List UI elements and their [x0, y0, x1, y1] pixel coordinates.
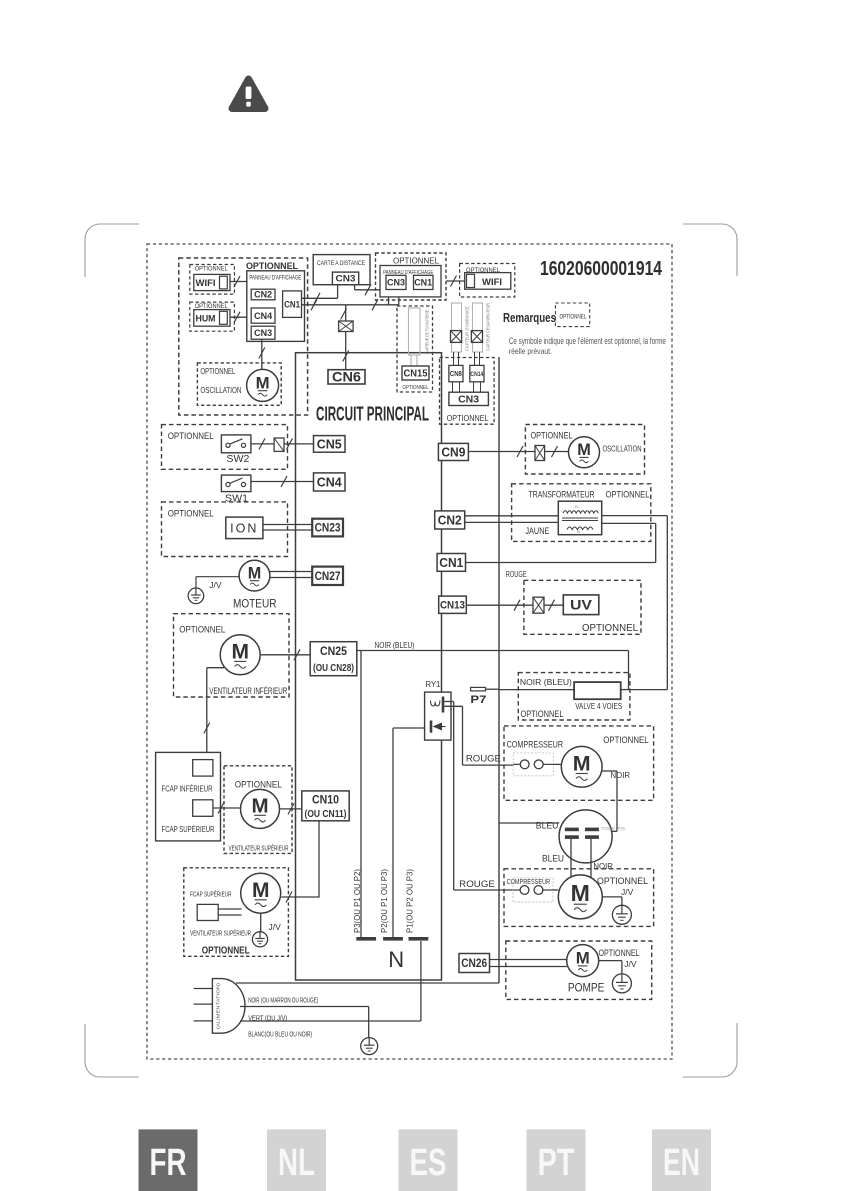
svg-text:OPTIONNEL: OPTIONNEL	[603, 735, 649, 746]
svg-text:OPTIONNEL: OPTIONNEL	[606, 489, 650, 499]
svg-text:ES: ES	[410, 1142, 447, 1184]
svg-text:CN3: CN3	[254, 328, 272, 339]
svg-text:WIFI: WIFI	[196, 278, 216, 289]
svg-text:CN15: CN15	[404, 369, 428, 380]
svg-text:OPTIONNEL: OPTIONNEL	[582, 623, 638, 634]
svg-text:M: M	[251, 795, 268, 818]
svg-text:FCAP SUPÉRIEUR: FCAP SUPÉRIEUR	[190, 890, 232, 899]
svg-text:M: M	[252, 879, 270, 902]
svg-text:OSCILLATION: OSCILLATION	[200, 386, 241, 395]
svg-text:CN2: CN2	[254, 290, 272, 300]
svg-text:VALVE 4 VOIES: VALVE 4 VOIES	[575, 702, 622, 711]
svg-text:OPTIONNEL: OPTIONNEL	[403, 385, 429, 391]
svg-text:CN10: CN10	[312, 795, 339, 807]
svg-text:OPTIONNEL: OPTIONNEL	[179, 624, 225, 634]
svg-text:J/V: J/V	[209, 580, 222, 590]
svg-text:J/V: J/V	[624, 959, 637, 969]
svg-text:M: M	[231, 641, 249, 664]
svg-text:OPTIONNEL: OPTIONNEL	[202, 945, 250, 956]
svg-text:(ALIMENTATION): (ALIMENTATION)	[216, 982, 221, 1029]
svg-text:CN2: CN2	[438, 513, 462, 527]
svg-text:J/V: J/V	[269, 922, 282, 932]
svg-text:ION: ION	[230, 522, 258, 536]
svg-text:NOIR (BLEU): NOIR (BLEU)	[375, 640, 415, 650]
svg-text:CIRCUIT PRINCIPAL: CIRCUIT PRINCIPAL	[316, 404, 429, 426]
svg-text:PT: PT	[538, 1142, 575, 1184]
svg-text:P1(OU P2 OU P3): P1(OU P2 OU P3)	[406, 869, 415, 933]
svg-text:O.: O.	[577, 529, 581, 534]
svg-text:CAPTEUR DE TUYAUTERIE: CAPTEUR DE TUYAUTERIE	[425, 310, 430, 354]
svg-text:réelle prévaut.: réelle prévaut.	[509, 346, 552, 356]
svg-text:NOIR (OU MARRON OU ROUGE): NOIR (OU MARRON OU ROUGE)	[248, 998, 318, 1005]
svg-text:M: M	[256, 373, 270, 392]
svg-text:CN13: CN13	[440, 600, 465, 612]
svg-text:CN3: CN3	[336, 274, 356, 285]
svg-text:VENTILATEUR SUPÉRIEUR: VENTILATEUR SUPÉRIEUR	[190, 929, 251, 938]
svg-text:O.: O.	[575, 504, 579, 509]
svg-text:COMPRESSEUR: COMPRESSEUR	[507, 740, 564, 751]
svg-text:VERT (OU J/V): VERT (OU J/V)	[248, 1015, 287, 1022]
svg-text:VENTILATEUR SUPÉRIEUR: VENTILATEUR SUPÉRIEUR	[229, 844, 289, 853]
svg-text:OPTIONNEL: OPTIONNEL	[246, 261, 298, 271]
svg-text:BLEU: BLEU	[536, 821, 559, 831]
svg-text:VENTILATEUR INFÉRIEUR: VENTILATEUR INFÉRIEUR	[209, 686, 287, 696]
svg-text:OPTIONNEL: OPTIONNEL	[393, 255, 439, 265]
svg-text:PANNEAU D'AFFICHAGE: PANNEAU D'AFFICHAGE	[249, 276, 301, 282]
svg-text:CN8: CN8	[450, 371, 462, 378]
svg-text:ROUGE: ROUGE	[506, 569, 527, 579]
svg-text:M: M	[573, 752, 591, 776]
svg-text:SW1: SW1	[225, 493, 248, 505]
svg-text:OPTIONNEL: OPTIONNEL	[168, 508, 214, 518]
svg-text:BLEU: BLEU	[542, 853, 564, 863]
svg-text:M: M	[571, 880, 590, 906]
svg-text:EN: EN	[663, 1142, 700, 1184]
svg-text:JAUNE: JAUNE	[525, 526, 549, 537]
svg-text:OPTIONNEL: OPTIONNEL	[195, 266, 229, 272]
svg-text:CN6: CN6	[332, 370, 362, 385]
svg-text:OSCILLATION: OSCILLATION	[603, 444, 642, 454]
svg-text:FCAP INFÉRIEUR: FCAP INFÉRIEUR	[162, 784, 213, 794]
svg-text:OPTIONNEL: OPTIONNEL	[599, 948, 640, 958]
svg-text:16020600001914: 16020600001914	[540, 258, 663, 280]
svg-text:ROUGE: ROUGE	[459, 879, 495, 890]
svg-text:CN26: CN26	[461, 958, 487, 970]
svg-text:CN27: CN27	[315, 571, 341, 583]
svg-text:HUM: HUM	[196, 313, 216, 324]
svg-text:CN4: CN4	[254, 311, 273, 322]
svg-text:NOIR (BLEU): NOIR (BLEU)	[520, 677, 572, 687]
svg-text:UV: UV	[570, 597, 593, 613]
svg-text:J/V: J/V	[621, 887, 634, 897]
svg-text:(OU CN11): (OU CN11)	[305, 809, 347, 820]
svg-text:CN1: CN1	[284, 299, 300, 309]
svg-text:SW2: SW2	[226, 453, 249, 465]
svg-text:MOTEUR: MOTEUR	[233, 598, 277, 610]
svg-text:CN1: CN1	[439, 556, 463, 570]
svg-text:CAPTEUR D'EVAPORATEUR: CAPTEUR D'EVAPORATEUR	[486, 302, 491, 351]
svg-text:OPTIONNEL: OPTIONNEL	[521, 709, 564, 719]
svg-text:OPTIONNEL: OPTIONNEL	[200, 367, 235, 376]
svg-text:POMPE: POMPE	[568, 982, 605, 994]
svg-text:N: N	[388, 947, 404, 972]
svg-text:CP(2)(OU CP(3)): CP(2)(OU CP(3))	[601, 826, 626, 831]
svg-text:FR: FR	[150, 1142, 187, 1184]
svg-text:CN14: CN14	[470, 371, 483, 378]
svg-text:CN1: CN1	[414, 278, 433, 289]
svg-text:OPTIONNEL: OPTIONNEL	[235, 779, 282, 789]
svg-text:NL: NL	[278, 1142, 315, 1184]
svg-text:TRANSFORMATEUR: TRANSFORMATEUR	[529, 489, 595, 499]
svg-text:CN3: CN3	[458, 394, 479, 406]
svg-text:CAPTEUR D'AMBIANCE: CAPTEUR D'AMBIANCE	[465, 306, 470, 351]
svg-text:OPTIONNEL: OPTIONNEL	[168, 431, 214, 441]
svg-text:M: M	[577, 441, 591, 459]
svg-text:M: M	[576, 949, 590, 968]
svg-text:CN25: CN25	[320, 646, 348, 658]
svg-text:P2(OU P1 OU P3): P2(OU P1 OU P3)	[380, 869, 389, 933]
svg-text:P7: P7	[470, 694, 486, 706]
svg-text:OPTIONNEL: OPTIONNEL	[560, 314, 588, 320]
svg-text:(OU CN28): (OU CN28)	[313, 663, 354, 674]
svg-text:CN3: CN3	[387, 278, 405, 289]
svg-text:CN4: CN4	[317, 475, 342, 489]
svg-text:M: M	[248, 565, 261, 583]
svg-text:WIFI: WIFI	[482, 277, 502, 288]
svg-text:OPTIONNEL: OPTIONNEL	[447, 414, 489, 423]
svg-text:CN5: CN5	[317, 437, 342, 451]
svg-text:BLANC(OU BLEU OU NOIR): BLANC(OU BLEU OU NOIR)	[248, 1032, 312, 1039]
svg-text:Remarques: Remarques	[503, 311, 556, 325]
svg-text:Ce symbole indique que l'éléme: Ce symbole indique que l'élément est opt…	[509, 336, 666, 346]
svg-text:ROUGE: ROUGE	[466, 753, 501, 764]
svg-text:CARTE A DISTANCE: CARTE A DISTANCE	[317, 260, 365, 267]
svg-text:FCAP SUPÉRIEUR: FCAP SUPÉRIEUR	[162, 824, 215, 834]
svg-text:OPTIONNEL: OPTIONNEL	[531, 430, 573, 440]
svg-text:RY1: RY1	[426, 680, 442, 689]
svg-text:CN23: CN23	[315, 523, 341, 535]
svg-text:NOIR: NOIR	[611, 770, 631, 780]
svg-text:CN9: CN9	[441, 445, 465, 459]
svg-text:OPTIONNEL: OPTIONNEL	[597, 876, 648, 887]
